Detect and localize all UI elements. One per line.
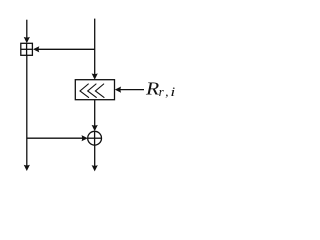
- arrowhead into XOR left side: [82, 135, 88, 141]
- XOR gate X1 (circle plus): [88, 131, 102, 145]
- arrowhead into XOR top: [92, 125, 98, 131]
- arrowhead: left output bottom: [24, 165, 30, 171]
- wire: left vertical from adder bottom to output (junction at y=138.2): [26, 55, 28, 166]
- arrowhead into rotation box top: [92, 73, 98, 79]
- rotate-left symbol (three chevrons): [80, 84, 104, 97]
- arrowhead into adder right side: [33, 46, 39, 52]
- svg-text:r: r: [159, 84, 165, 99]
- modular adder B1 (squared plus): [21, 43, 33, 55]
- svg-text:R: R: [145, 79, 159, 99]
- wire: key input horizontal from label: [120, 89, 145, 91]
- svg-text:i: i: [170, 84, 175, 99]
- wire: right input vertical into rotation box (junction at y=49.3): [94, 19, 96, 75]
- arrowhead into adder top: [24, 37, 30, 43]
- wire: horizontal branch from left line to XOR: [27, 137, 83, 139]
- wire: XOR to bottom output vertical: [94, 145, 96, 167]
- wire: horizontal branch from right line to adder: [39, 48, 95, 50]
- wire: left input vertical into adder: [26, 20, 28, 38]
- svg-text:,: ,: [165, 84, 168, 99]
- wire: rotation box to XOR vertical: [94, 100, 96, 127]
- arrowhead into rotation box right side: [115, 87, 121, 93]
- arrowhead: right output bottom: [92, 165, 98, 171]
- rotation box U1: [75, 80, 114, 100]
